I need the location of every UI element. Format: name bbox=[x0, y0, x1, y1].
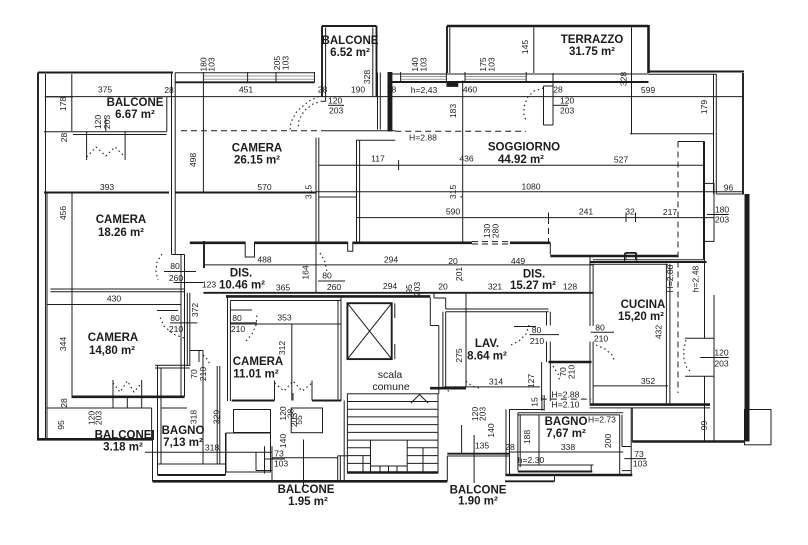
cucina bottom dim 352 bbox=[593, 376, 668, 386]
door balcone 6.67 (120/203) bbox=[87, 115, 126, 160]
svg-text:6.52 m²: 6.52 m² bbox=[330, 47, 370, 59]
H=2.88 H=2.10 labels bbox=[541, 390, 591, 410]
bottom right box bbox=[745, 410, 772, 445]
balcone 6.52 bbox=[322, 26, 379, 101]
balcone 6.67 label bbox=[107, 97, 164, 121]
bottom outline bbox=[153, 440, 448, 481]
svg-text:80: 80 bbox=[595, 323, 605, 333]
svg-text:95: 95 bbox=[56, 420, 66, 430]
soggiorno top wall with windows bbox=[388, 57, 649, 86]
svg-text:321: 321 bbox=[488, 282, 503, 292]
stairs bbox=[344, 394, 438, 482]
svg-text:432: 432 bbox=[654, 325, 664, 340]
bottom right thick wall bbox=[632, 408, 745, 442]
camera 11.01 balcony door labels bbox=[278, 406, 323, 448]
svg-text:20: 20 bbox=[448, 256, 458, 266]
svg-text:31.75 m²: 31.75 m² bbox=[569, 46, 615, 58]
svg-text:179: 179 bbox=[699, 100, 709, 115]
svg-text:188: 188 bbox=[522, 430, 532, 445]
soggiorno label bbox=[488, 142, 560, 167]
wall between left rooms and camera 26.15 bbox=[172, 73, 185, 397]
svg-text:1.95 m²: 1.95 m² bbox=[288, 496, 328, 508]
door camera 26.15 to hall bbox=[290, 97, 319, 131]
svg-text:145: 145 bbox=[520, 40, 530, 55]
svg-text:BALCONE: BALCONE bbox=[278, 484, 335, 496]
svg-text:96: 96 bbox=[724, 183, 734, 193]
outer wall right bbox=[743, 73, 747, 442]
camera 26.15 right wall bbox=[316, 138, 319, 242]
camera 11.01 inner dim 353 312 bbox=[230, 313, 341, 401]
wall strip left column bbox=[47, 74, 72, 438]
svg-text:460: 460 bbox=[463, 85, 478, 95]
dis 15.27 label bbox=[510, 269, 556, 293]
svg-text:120: 120 bbox=[328, 96, 343, 106]
svg-text:498: 498 bbox=[188, 153, 198, 168]
svg-text:280: 280 bbox=[491, 224, 501, 239]
svg-text:.: . bbox=[462, 273, 464, 283]
svg-text:103: 103 bbox=[274, 459, 289, 469]
svg-text:28: 28 bbox=[505, 442, 515, 452]
outer wall left bbox=[38, 73, 46, 440]
camera 14.80 label bbox=[58, 332, 138, 357]
door camera 14.80 balcony bbox=[113, 380, 142, 408]
svg-text:20: 20 bbox=[438, 282, 448, 292]
cucina right wall bbox=[666, 264, 670, 404]
dashed ceiling line H=2.88 left bbox=[181, 131, 526, 143]
lav right wall bbox=[542, 312, 592, 401]
door 80/260 dis top-left bbox=[156, 254, 203, 283]
svg-text:73: 73 bbox=[634, 449, 644, 459]
svg-text:H=2.88: H=2.88 bbox=[552, 390, 580, 400]
door 80/210 cucina bbox=[591, 323, 615, 363]
svg-text:80: 80 bbox=[532, 325, 542, 335]
svg-text:315: 315 bbox=[304, 185, 314, 200]
svg-text:375: 375 bbox=[98, 85, 113, 95]
svg-text:338: 338 bbox=[561, 442, 576, 452]
svg-text:203: 203 bbox=[478, 407, 488, 422]
svg-text:315: 315 bbox=[448, 185, 458, 200]
svg-text:BAGNO: BAGNO bbox=[545, 416, 588, 428]
svg-text:449: 449 bbox=[511, 256, 526, 266]
svg-text:203: 203 bbox=[412, 282, 422, 297]
svg-text:7,13 m²: 7,13 m² bbox=[163, 437, 203, 449]
svg-text:294: 294 bbox=[383, 281, 398, 291]
svg-text:28: 28 bbox=[59, 398, 69, 408]
svg-text:210: 210 bbox=[567, 365, 577, 380]
svg-text:210: 210 bbox=[594, 334, 609, 344]
svg-text:178: 178 bbox=[58, 97, 68, 112]
svg-text:73: 73 bbox=[274, 449, 284, 459]
svg-text:15,20 m²: 15,20 m² bbox=[618, 311, 664, 323]
svg-text:210: 210 bbox=[530, 336, 545, 346]
corridor walls left of camera 11.01 bbox=[187, 293, 220, 464]
svg-text:14,80 m²: 14,80 m² bbox=[89, 345, 135, 357]
svg-text:CAMERA: CAMERA bbox=[232, 143, 282, 155]
svg-text:CAMERA: CAMERA bbox=[233, 356, 283, 368]
camera 11.01 top wall bbox=[226, 295, 430, 298]
svg-text:15.27 m²: 15.27 m² bbox=[510, 280, 556, 292]
bagno right wall + door 73 bbox=[620, 408, 648, 474]
svg-text:DIS.: DIS. bbox=[230, 268, 252, 280]
svg-text:590: 590 bbox=[446, 207, 461, 217]
cucina label bbox=[618, 299, 665, 339]
svg-text:28: 28 bbox=[59, 133, 69, 143]
scala comune label bbox=[372, 369, 410, 393]
svg-text:365: 365 bbox=[276, 283, 291, 293]
svg-text:55: 55 bbox=[294, 415, 304, 425]
svg-text:H=2.88: H=2.88 bbox=[409, 133, 437, 143]
cucina top wall bbox=[590, 253, 707, 264]
svg-text:117: 117 bbox=[371, 154, 385, 164]
svg-text:80: 80 bbox=[170, 261, 180, 271]
svg-text:10.46 m²: 10.46 m² bbox=[219, 279, 265, 291]
bagno 7.67 labels bbox=[522, 415, 616, 449]
dim 80/260 right of camera11 top bbox=[316, 242, 345, 293]
wall camera18/camera14 (430) bbox=[47, 289, 185, 305]
svg-text:318: 318 bbox=[189, 410, 199, 425]
svg-text:H=2.10: H=2.10 bbox=[552, 400, 580, 410]
door 80/210 camera 11.01 bbox=[230, 310, 257, 341]
dim row A 117 436 527 bbox=[319, 154, 704, 171]
door 120/203 right loggia bbox=[684, 338, 729, 376]
right door 180/203 bbox=[705, 183, 730, 241]
svg-text:BALCONE: BALCONE bbox=[322, 35, 379, 47]
svg-text:h=2.30: h=2.30 bbox=[518, 455, 545, 465]
svg-text:H=2.88: H=2.88 bbox=[665, 264, 675, 292]
svg-text:203: 203 bbox=[102, 115, 112, 130]
svg-text:312: 312 bbox=[277, 341, 287, 356]
balcone 1.90 bbox=[447, 407, 509, 508]
svg-text:140: 140 bbox=[278, 434, 288, 449]
svg-text:451: 451 bbox=[239, 85, 254, 95]
dim 372 70 210 bbox=[189, 303, 208, 382]
balcone 6.67 box bbox=[44, 97, 167, 135]
balcone 1.95 door 73/103 bbox=[256, 446, 288, 481]
camera 11.01 box bbox=[228, 298, 342, 402]
svg-text:120: 120 bbox=[560, 96, 575, 106]
svg-text:44.92 m²: 44.92 m² bbox=[498, 154, 544, 166]
svg-text:120: 120 bbox=[714, 348, 729, 358]
svg-text:203: 203 bbox=[560, 106, 575, 116]
svg-text:103: 103 bbox=[633, 459, 648, 469]
entry door h wall vertical bbox=[448, 81, 463, 242]
svg-text:353: 353 bbox=[277, 313, 292, 323]
svg-text:32: 32 bbox=[625, 207, 635, 217]
svg-text:344: 344 bbox=[58, 337, 68, 352]
svg-text:15: 15 bbox=[530, 397, 540, 407]
svg-text:260: 260 bbox=[327, 282, 342, 292]
soggiorno left wall bbox=[319, 140, 360, 242]
right loggia strip bbox=[630, 72, 744, 195]
dim row B 1080 bbox=[316, 181, 744, 199]
svg-text:329: 329 bbox=[212, 410, 222, 425]
bagno 7.67 box bbox=[518, 413, 623, 471]
svg-text:comune: comune bbox=[372, 381, 410, 393]
bagno 7.13 top wall bbox=[155, 365, 190, 475]
lav bottom dim 314 127 bbox=[430, 374, 540, 393]
bagno 7.13 bottom bbox=[145, 442, 272, 475]
hall wall block bbox=[322, 73, 395, 141]
svg-text:28: 28 bbox=[553, 85, 563, 95]
svg-text:164: 164 bbox=[301, 265, 311, 280]
bagno bottom walls bbox=[505, 465, 632, 481]
lav label bbox=[454, 294, 507, 387]
camera 26.15 top windows bbox=[175, 56, 314, 83]
svg-text:203: 203 bbox=[714, 359, 729, 369]
svg-text:318: 318 bbox=[205, 442, 220, 452]
H rotated labels bbox=[665, 264, 701, 292]
camera 11.01 label bbox=[233, 356, 283, 381]
svg-text:393: 393 bbox=[100, 182, 115, 192]
svg-text:80: 80 bbox=[170, 313, 180, 323]
svg-text:103: 103 bbox=[281, 56, 291, 71]
svg-text:217: 217 bbox=[663, 207, 678, 217]
camera 14.80 bottom wall bbox=[72, 395, 185, 398]
svg-text:183: 183 bbox=[448, 104, 458, 119]
svg-text:294: 294 bbox=[384, 255, 399, 265]
dim row 123 365 294 95 203 20 321 128 bbox=[202, 267, 593, 297]
dis 10.46 label bbox=[219, 268, 265, 292]
svg-text:203: 203 bbox=[715, 215, 730, 225]
svg-text:180: 180 bbox=[715, 205, 730, 215]
dim row 451 28 190 28 bbox=[203, 83, 396, 193]
outer wall top-left wing bbox=[38, 73, 744, 97]
svg-text:CAMERA: CAMERA bbox=[96, 214, 146, 226]
dim row 488 294 20 449 bbox=[203, 255, 593, 267]
svg-text:11.01 m²: 11.01 m² bbox=[233, 369, 279, 381]
bagno 7.67 corridor left wall bbox=[506, 395, 544, 475]
svg-text:3.18 m²: 3.18 m² bbox=[103, 442, 143, 454]
svg-text:18.26 m²: 18.26 m² bbox=[98, 227, 144, 239]
door balcone 6.52 (120/203) bbox=[298, 96, 344, 129]
svg-text:103: 103 bbox=[207, 57, 217, 72]
svg-text:103: 103 bbox=[419, 57, 429, 72]
camera 18.26 label bbox=[58, 206, 146, 239]
shower box bbox=[226, 410, 271, 476]
svg-text:BALCONE: BALCONE bbox=[95, 430, 152, 442]
svg-text:210: 210 bbox=[231, 324, 246, 334]
svg-text:527: 527 bbox=[614, 155, 629, 165]
wall right corridor bbox=[713, 295, 715, 442]
svg-text:H=2.73: H=2.73 bbox=[588, 415, 616, 425]
terrazzo outline bbox=[447, 25, 649, 134]
svg-text:CAMERA: CAMERA bbox=[88, 332, 138, 344]
dis/lav wall bbox=[434, 293, 549, 389]
svg-text:488: 488 bbox=[257, 255, 272, 265]
door 70/210 lav bottom bbox=[530, 365, 577, 407]
svg-text:BALCONE: BALCONE bbox=[107, 97, 164, 109]
dim row h=2,43 460 28 bbox=[411, 85, 656, 96]
scala top wall bbox=[430, 298, 439, 394]
bagno dim 28 338 h=2.30 bbox=[505, 442, 623, 465]
svg-text:26.15 m²: 26.15 m² bbox=[234, 155, 280, 167]
elevator bbox=[347, 303, 394, 359]
corridor bagno7.13 door labels bbox=[199, 351, 210, 366]
dim row C 590 241 32 217 bbox=[357, 207, 714, 223]
balcone 3.18 bbox=[47, 398, 153, 453]
svg-text:80: 80 bbox=[232, 313, 242, 323]
svg-text:599: 599 bbox=[641, 85, 656, 95]
svg-text:99: 99 bbox=[699, 421, 709, 431]
cucina bottom wall bbox=[590, 405, 710, 408]
dashed vertical hall right bbox=[549, 142, 705, 442]
dim 375 28 178 bbox=[58, 85, 174, 143]
svg-text:LAV.: LAV. bbox=[475, 338, 499, 350]
svg-text:127: 127 bbox=[526, 374, 536, 389]
camera 26.15 bottom dim 570 bbox=[175, 182, 316, 199]
svg-text:200: 200 bbox=[603, 434, 613, 449]
balcone 1.95 bbox=[272, 440, 347, 509]
door camera 11.01 balcony bbox=[275, 381, 313, 401]
svg-text:TERRAZZO: TERRAZZO bbox=[561, 34, 624, 46]
svg-text:1.90 m²: 1.90 m² bbox=[458, 496, 498, 508]
svg-text:7,67 m²: 7,67 m² bbox=[546, 428, 586, 440]
svg-text:260: 260 bbox=[169, 273, 184, 283]
door 80/210 lav right bbox=[461, 196, 559, 346]
svg-text:135: 135 bbox=[475, 441, 490, 451]
svg-text:314: 314 bbox=[489, 377, 504, 387]
svg-text:28: 28 bbox=[164, 85, 174, 95]
svg-text:6.67 m²: 6.67 m² bbox=[115, 109, 155, 121]
svg-text:430: 430 bbox=[107, 294, 122, 304]
svg-text:352: 352 bbox=[641, 376, 656, 386]
cucina left wall bbox=[590, 257, 593, 403]
svg-text:BAGNO: BAGNO bbox=[162, 425, 205, 437]
svg-text:140: 140 bbox=[486, 423, 496, 438]
svg-text:scala: scala bbox=[378, 369, 403, 381]
svg-text:328: 328 bbox=[619, 72, 629, 87]
svg-text:203: 203 bbox=[329, 106, 344, 116]
svg-text:h=2.48: h=2.48 bbox=[691, 266, 701, 293]
svg-text:DIS.: DIS. bbox=[523, 269, 545, 281]
svg-text:570: 570 bbox=[257, 182, 272, 192]
soggiorno bottom wall bbox=[190, 142, 704, 280]
svg-text:8.64 m²: 8.64 m² bbox=[467, 351, 507, 363]
terrace door 120/203 bbox=[524, 73, 575, 125]
bottom wall left balcony bbox=[37, 438, 153, 441]
svg-text:190: 190 bbox=[351, 85, 366, 95]
camera 26.15 label bbox=[188, 143, 282, 168]
svg-text:123: 123 bbox=[202, 280, 217, 290]
bagno 7.13 inner bbox=[161, 408, 222, 449]
svg-text:80: 80 bbox=[322, 271, 332, 281]
svg-text:CUCINA: CUCINA bbox=[621, 299, 666, 311]
svg-text:372: 372 bbox=[190, 303, 200, 318]
svg-text:436: 436 bbox=[459, 154, 474, 164]
svg-text:1080: 1080 bbox=[521, 181, 540, 191]
svg-text:241: 241 bbox=[579, 207, 594, 217]
svg-text:275: 275 bbox=[454, 348, 464, 363]
svg-text:h=2,43: h=2,43 bbox=[411, 85, 438, 95]
svg-text:SOGGIORNO: SOGGIORNO bbox=[488, 142, 560, 154]
svg-text:456: 456 bbox=[58, 206, 68, 221]
camera 18.26 top wall (393 line) bbox=[44, 182, 169, 193]
svg-text:128: 128 bbox=[563, 282, 578, 292]
svg-text:203: 203 bbox=[94, 411, 104, 426]
door 80/210 camera 14.80 right bbox=[157, 311, 197, 339]
svg-text:328: 328 bbox=[362, 70, 372, 85]
scala dim 294 bbox=[0, 0, 1, 1]
svg-text:103: 103 bbox=[487, 57, 497, 72]
